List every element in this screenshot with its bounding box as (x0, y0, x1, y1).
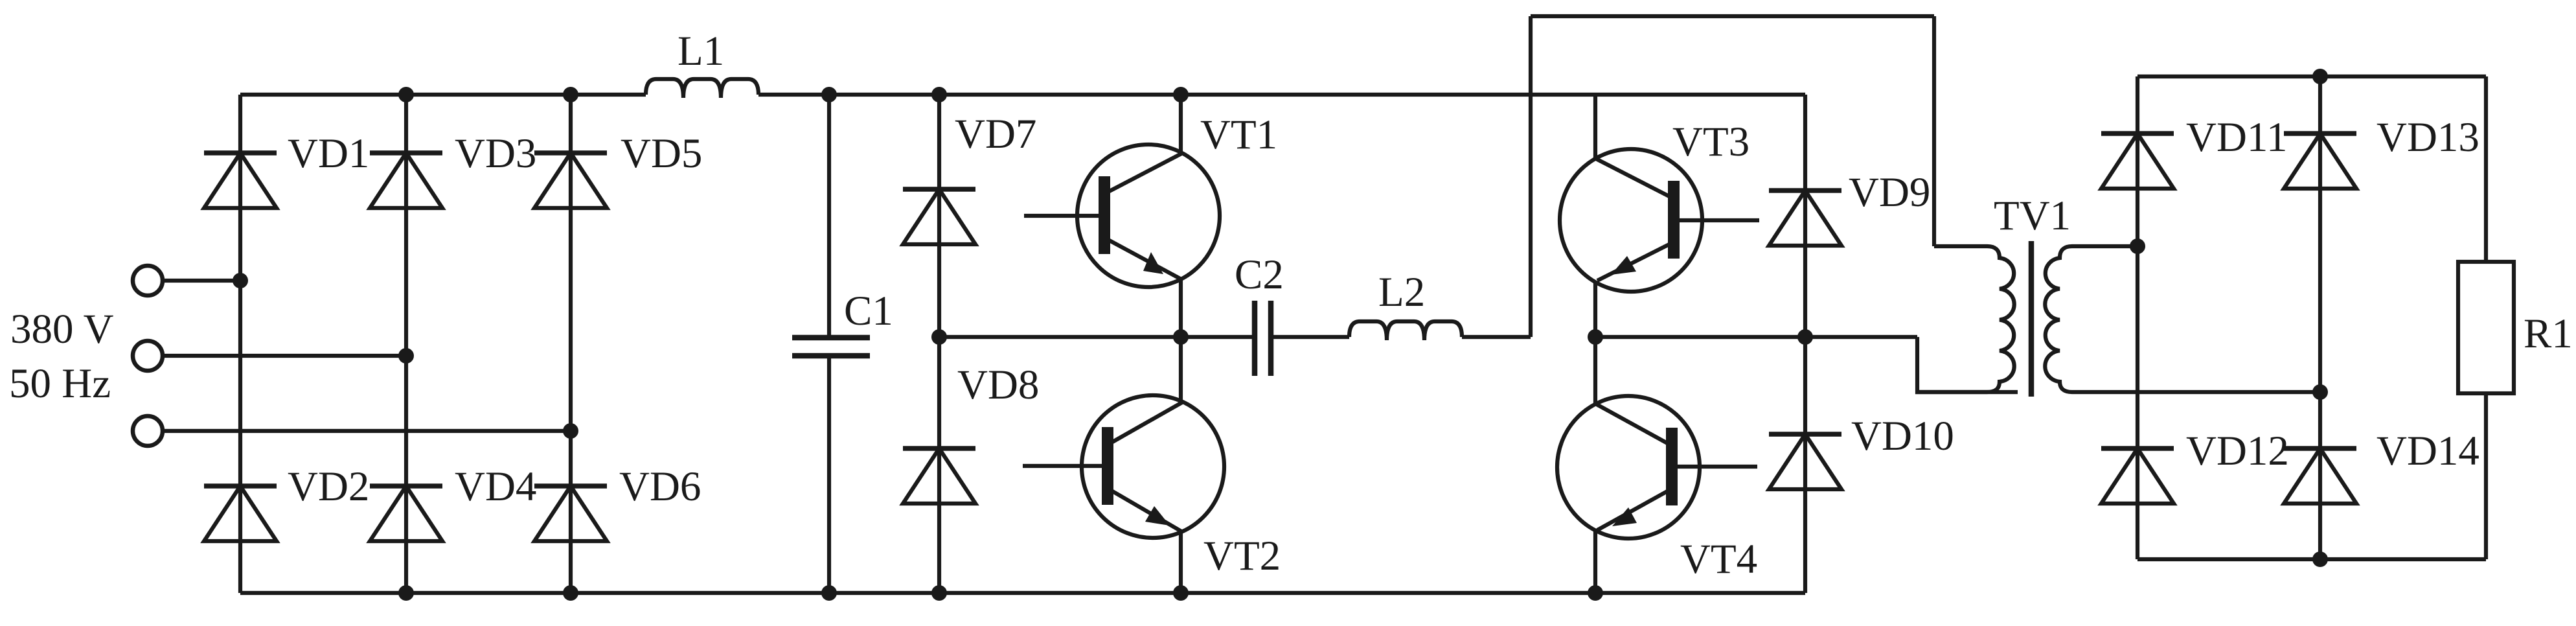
inductor L2 (1349, 321, 1462, 340)
wire VT2 emitter to bottom rail (1179, 531, 1183, 593)
diode VD2 (204, 486, 277, 541)
transistor VT2 (1023, 395, 1224, 538)
node midpoint VD7/VD8 (931, 329, 947, 345)
wire phase 2 to bridge leg 2 (163, 354, 406, 358)
inductor L1 (646, 79, 758, 98)
wire phase 1 to bridge leg 1 (163, 279, 240, 283)
wire top link to transformer (1531, 14, 1934, 18)
diode VD3 (370, 153, 442, 208)
transistor VT3 (1560, 149, 1759, 292)
node bottom rail C1 (821, 585, 837, 601)
diode VD6 (534, 486, 607, 541)
transistor VT4 (1557, 396, 1757, 539)
svg-text:VD10: VD10 (1851, 413, 1954, 459)
node 380V three-phase input terminal 2 (133, 341, 163, 371)
svg-text:L2: L2 (1378, 269, 1425, 316)
diode VD1 (204, 153, 277, 208)
node bottom rail leg2 (398, 585, 414, 601)
transformer TV1 primary winding (1915, 246, 2014, 392)
wire VT3 emitter to midpoint (1593, 281, 1597, 337)
node output bottom rail leg B (2312, 551, 2328, 567)
transformer TV1 secondary winding (2045, 246, 2320, 392)
svg-text:VD12: VD12 (2186, 428, 2289, 474)
svg-text:VD6: VD6 (619, 463, 701, 510)
diode VD5 (534, 153, 607, 208)
diode VD4 (370, 486, 442, 541)
diode VD8 (903, 448, 975, 504)
svg-text:VD9: VD9 (1849, 169, 1930, 216)
svg-text:VD8: VD8 (957, 362, 1039, 408)
wire VT4 collector from midpoint (1593, 337, 1597, 405)
svg-text:VT2: VT2 (1203, 533, 1281, 579)
resistor R1 (2458, 76, 2514, 559)
transistor VT1 (1024, 145, 1220, 287)
capacitor C1 (792, 95, 870, 593)
node bottom rail VD8 (931, 585, 947, 601)
wire inverter midpoint row right (1595, 335, 1917, 339)
wire VT1 collector from top rail (1179, 95, 1183, 154)
node top rail VD7 (931, 87, 947, 102)
svg-text:VD1: VD1 (288, 130, 369, 177)
wire VD9/VD10 leg (1803, 95, 1807, 593)
svg-text:R1: R1 (2524, 310, 2573, 357)
wire VT3 collector from top rail (1593, 95, 1597, 159)
diode VD11 (2101, 133, 2174, 189)
wire bottom DC rail (240, 591, 1805, 595)
wire bridge leg 1 (238, 95, 242, 593)
node phase1-leg1 (233, 273, 248, 288)
wire top DC rail after L1 (758, 93, 1805, 97)
svg-text:VD14: VD14 (2377, 428, 2479, 474)
wire phase 3 to bridge leg 3 (163, 429, 571, 433)
wire output bridge bottom rail (2137, 557, 2486, 561)
node secondary top leg A (2130, 238, 2145, 254)
wire inverter midpoint row left (939, 335, 1254, 339)
node top rail VT1 (1173, 87, 1189, 102)
node output top rail leg B (2312, 69, 2328, 84)
node secondary bottom leg B (2312, 384, 2328, 400)
node top rail C1 (821, 87, 837, 102)
svg-text:VD11: VD11 (2186, 114, 2287, 161)
svg-text:VD7: VD7 (955, 111, 1036, 157)
wire VD7/VD8 leg (937, 95, 941, 593)
wire output leg A (2136, 76, 2139, 559)
node midpoint VT3/VT4 (1588, 329, 1603, 345)
diode VD7 (903, 189, 975, 244)
node top rail leg2 (398, 87, 414, 102)
node 380V three-phase input terminal 1 (133, 266, 163, 296)
node midpoint VT1/VT2 (1173, 329, 1189, 345)
node 380V three-phase input terminal 3 (133, 416, 163, 446)
node phase3-leg3 (563, 423, 578, 439)
svg-text:VD13: VD13 (2377, 114, 2479, 161)
node phase2-leg2 (398, 348, 414, 364)
node top rail leg3 (563, 87, 578, 102)
diode VD13 (2284, 133, 2356, 189)
svg-text:L1: L1 (678, 28, 724, 75)
node midpoint VD9/VD10 (1797, 329, 1813, 345)
svg-text:380 V: 380 V (10, 306, 114, 353)
wire output bridge top rail (2137, 75, 2486, 78)
wire C2 to L2 (1271, 335, 1349, 339)
svg-text:C1: C1 (844, 288, 893, 334)
transformer TV1 core (2029, 241, 2035, 397)
capacitor C2 (1255, 301, 1271, 376)
svg-text:VT4: VT4 (1680, 536, 1757, 583)
svg-text:VD3: VD3 (455, 130, 536, 177)
diode VD12 (2101, 448, 2174, 504)
node bottom rail VT4 (1588, 585, 1603, 601)
wire VT1 emitter to midpoint (1179, 279, 1183, 337)
svg-text:TV1: TV1 (1994, 192, 2071, 239)
wire bridge leg 3 (569, 95, 573, 593)
diode VD10 (1769, 434, 1841, 489)
wire output leg B (2318, 76, 2322, 559)
node bottom rail VT2 (1173, 585, 1189, 601)
wire top DC rail (240, 93, 646, 97)
wire transformer primary top drop (1932, 16, 1936, 246)
wire L2 to riser (1462, 335, 1531, 339)
wire VT2 collector from midpoint (1179, 337, 1183, 403)
node bottom rail leg3 (563, 585, 578, 601)
svg-text:VD4: VD4 (455, 463, 536, 510)
svg-text:50 Hz: 50 Hz (9, 360, 111, 407)
svg-text:VT3: VT3 (1672, 119, 1750, 165)
wire midpoint jog down (1917, 337, 2018, 392)
diode VD9 (1769, 191, 1841, 246)
wire bridge leg 2 (404, 95, 408, 593)
wire riser to top link (1529, 16, 1533, 337)
wire VT4 emitter to bottom rail (1593, 529, 1597, 593)
svg-text:VD2: VD2 (288, 463, 369, 510)
diode VD14 (2284, 448, 2356, 504)
svg-text:VD5: VD5 (621, 130, 702, 177)
svg-text:C2: C2 (1235, 251, 1284, 298)
svg-text:VT1: VT1 (1200, 111, 1277, 158)
